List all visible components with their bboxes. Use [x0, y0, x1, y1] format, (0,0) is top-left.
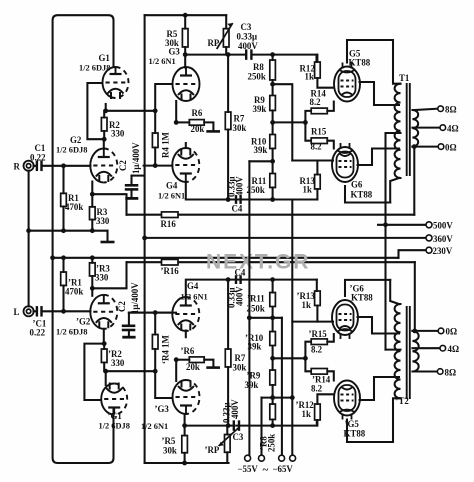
label R4 1M	[161, 131, 171, 158]
watermark NEXT.GR	[206, 251, 310, 274]
wire 8ohm' lead	[415, 370, 438, 372]
label R1	[65, 193, 83, 212]
label R7	[233, 114, 247, 134]
triode G1'	[101, 383, 127, 415]
svg-text:’RP: ’RP	[205, 445, 220, 455]
label R2	[109, 120, 125, 139]
triode G2	[90, 149, 117, 183]
node R9/R10 tap	[270, 120, 275, 125]
resistor R6'	[189, 357, 204, 363]
label R6	[191, 108, 205, 134]
wire R2 leads	[103, 111, 105, 139]
terminal 230V	[426, 247, 432, 253]
wire feedback riser 2	[414, 262, 416, 331]
wire G5 screen UL tap	[360, 82, 400, 105]
svg-text:R15: R15	[311, 127, 327, 137]
svg-text:−55V: −55V	[238, 464, 259, 474]
wire input ground column	[28, 171, 30, 307]
node R8/R9 tap	[270, 82, 275, 87]
svg-text:C2: C2	[117, 301, 127, 312]
node input ground tap	[26, 228, 31, 233]
wire ground bus top	[29, 230, 108, 232]
wire R14' branch	[305, 358, 311, 371]
wire R4' leads	[154, 313, 156, 372]
svg-text:C4: C4	[232, 204, 243, 214]
wire G4' grid line	[129, 312, 172, 314]
label T1	[399, 73, 409, 83]
svg-text:R8: R8	[253, 62, 264, 72]
node G3 cathode	[174, 120, 179, 125]
wire G4 grid line	[144, 165, 173, 167]
wire C3' row	[185, 420, 317, 426]
resistor R7'	[225, 349, 231, 367]
node R9'/R10' tap	[270, 356, 275, 361]
svg-text:4Ω: 4Ω	[448, 344, 460, 354]
svg-text:’G3: ’G3	[155, 404, 170, 414]
label 4ohm'	[448, 344, 460, 354]
wire R1' leads	[62, 258, 64, 312]
wire R10'-R11' lead	[272, 307, 274, 332]
wire T2 center tap	[386, 349, 401, 351]
svg-text:G4: G4	[166, 181, 178, 191]
wire R9' leads	[272, 385, 274, 398]
svg-text:1k: 1k	[302, 300, 311, 310]
svg-text:400V: 400V	[230, 399, 240, 419]
node G3 plate	[183, 52, 188, 57]
resistor R8	[270, 60, 276, 80]
label R11	[247, 176, 267, 195]
svg-text:1k: 1k	[302, 409, 311, 419]
svg-text:L: L	[14, 307, 20, 317]
node R1' bus junction	[61, 255, 66, 260]
svg-text:4Ω: 4Ω	[447, 123, 459, 133]
node bus2 box junction	[50, 255, 55, 260]
label R5'	[162, 436, 177, 456]
svg-text:330: 330	[111, 358, 125, 368]
svg-text:1/2 6N1: 1/2 6N1	[141, 422, 168, 431]
wire 360V rail	[145, 237, 426, 239]
R input jack	[24, 161, 34, 171]
svg-text:250k: 250k	[248, 72, 266, 82]
wire G4' plate line	[186, 280, 317, 298]
svg-text:0.22: 0.22	[30, 152, 46, 162]
ground symbol R6'	[206, 366, 220, 369]
label R11'	[247, 294, 265, 314]
wire feedback riser	[413, 147, 415, 215]
svg-text:’T2: ’T2	[396, 396, 410, 406]
node bias col1 tap	[247, 315, 252, 320]
svg-text:0.33μ: 0.33μ	[237, 32, 258, 42]
wire G6 plate bottom	[345, 186, 390, 203]
svg-text:T1: T1	[399, 73, 409, 83]
wire G5' plate bottom	[347, 398, 401, 442]
svg-text:360V: 360V	[433, 234, 453, 244]
node cathode/R4 junction	[153, 108, 158, 113]
label R12	[300, 64, 316, 82]
wire C1' to G2' grid	[42, 310, 91, 312]
label R2'	[108, 349, 125, 368]
svg-text:39k: 39k	[245, 380, 259, 390]
wire R7 column	[227, 55, 229, 200]
svg-text:330: 330	[96, 216, 110, 226]
wire G4 cathode stem	[185, 143, 187, 148]
label R7'	[233, 353, 247, 373]
label R14'	[311, 375, 331, 394]
node R1 bus junction	[61, 228, 66, 233]
wire G3 grid line	[155, 84, 172, 111]
wire G6' plate top	[345, 280, 390, 296]
wire G3 plate stem	[184, 55, 186, 68]
label R3	[96, 207, 110, 226]
svg-text:C3: C3	[241, 22, 252, 32]
svg-text:8.2: 8.2	[311, 142, 323, 152]
label R3'	[95, 264, 110, 283]
resistor R13'	[315, 291, 321, 306]
wire bias column 4	[291, 200, 293, 456]
wire feedback loop box (left)	[53, 15, 114, 463]
label 4ohm	[447, 123, 459, 133]
resistor R1'	[61, 272, 67, 286]
label R13	[300, 176, 316, 195]
capacitor C4'	[236, 275, 241, 284]
wire R14' to G5' cathode	[327, 371, 334, 380]
capacitor C2	[125, 176, 139, 199]
wire G1' cathode line	[106, 371, 156, 385]
resistor R3	[90, 207, 96, 220]
resistor R15	[311, 138, 327, 144]
node 0ohm feedback	[412, 144, 417, 149]
svg-text:1/2 6DJ8: 1/2 6DJ8	[79, 64, 110, 73]
resistor R12'	[315, 404, 321, 420]
label C4	[227, 176, 245, 214]
node G2 cathode	[90, 192, 95, 197]
wire R15 branch	[305, 122, 311, 140]
label R12'	[296, 400, 315, 419]
resistor R11'	[270, 293, 276, 307]
wire R8' top lead	[272, 398, 274, 404]
svg-text:G6: G6	[351, 180, 363, 190]
wire R9-R10 lead	[272, 111, 274, 135]
wire L jack to C1'	[34, 310, 37, 312]
terminal 8ohm'	[437, 369, 443, 375]
label C3	[237, 22, 259, 51]
wire RP' leads	[226, 426, 228, 463]
resistor R14'	[311, 369, 327, 375]
potentiometer RP'	[219, 428, 239, 452]
wire G6 UL tap	[358, 149, 400, 166]
wire R5' leads	[184, 426, 186, 463]
wire feedback row bottom (R16' row)	[127, 261, 415, 263]
svg-text:8Ω: 8Ω	[445, 367, 457, 377]
node R5 rail junction	[183, 13, 188, 18]
wire G6' UL tap	[358, 317, 400, 334]
label 0ohm'	[446, 327, 458, 337]
triode G3'	[173, 380, 200, 414]
svg-text:1μ/400V: 1μ/400V	[130, 282, 140, 314]
wire G3 cathode stem	[175, 101, 177, 122]
wire R10-R11 lead	[272, 149, 274, 174]
transformer T2 secondary	[412, 331, 418, 372]
terminal 8ohm	[438, 106, 444, 112]
wire R6' leads	[176, 360, 213, 367]
svg-text:1/2 6DJ8: 1/2 6DJ8	[99, 422, 130, 431]
svg-text:1/2 6N1: 1/2 6N1	[181, 293, 208, 302]
potentiometer RP	[217, 23, 233, 49]
wire bias column 1	[248, 161, 250, 455]
wire ground bus bottom	[53, 257, 399, 259]
label R4' 1M	[161, 335, 171, 364]
wire R8 top lead	[272, 55, 274, 60]
wire R jack to C1	[34, 165, 37, 167]
svg-text:1/2 6DJ8: 1/2 6DJ8	[56, 146, 87, 155]
wire R5 leads	[184, 15, 186, 54]
capacitor C1	[37, 161, 42, 172]
transformer T1 core	[407, 83, 410, 176]
terminal 0ohm'	[438, 328, 444, 334]
wire R9'-R10' lead	[272, 346, 274, 371]
wire R6 leads	[176, 122, 213, 129]
wire G1 grid hook	[87, 83, 104, 139]
terminal -55V b	[259, 455, 265, 461]
wire T2 coil top jog	[390, 280, 399, 304]
wire R14 to G5 cathode	[327, 102, 334, 111]
terminal 360V	[426, 235, 432, 241]
label R16'	[161, 266, 180, 276]
svg-text:’C3: ’C3	[230, 432, 244, 442]
wire G4 plate line	[186, 182, 317, 200]
svg-text:330: 330	[95, 273, 109, 283]
wire G2' cathode stem	[91, 288, 93, 296]
node R3' bus junction	[90, 255, 95, 260]
wire G3' grid line	[155, 371, 172, 398]
label -55V ~ -65V	[238, 464, 294, 476]
wire G6' grid line	[292, 321, 333, 323]
svg-text:‘R4 1M: ‘R4 1M	[161, 335, 171, 364]
capacitor C2'	[122, 313, 136, 338]
node G3' cathode	[174, 357, 179, 362]
resistor R10	[270, 135, 276, 149]
wire R3 leads	[91, 194, 93, 231]
beam tetrode G6	[332, 143, 358, 182]
label R8'	[259, 434, 277, 452]
wire R2' leads	[103, 344, 105, 372]
resistor R7	[225, 112, 231, 130]
label G1'	[99, 411, 130, 431]
svg-text:’R5: ’R5	[162, 436, 176, 446]
label R5	[165, 29, 179, 48]
wire R4 leads	[154, 111, 156, 166]
beam tetrode G5'	[334, 381, 360, 420]
svg-text:NEXT.GR: NEXT.GR	[206, 251, 310, 274]
triode G2'	[90, 295, 117, 329]
label R15	[311, 127, 327, 152]
wire 0ohm' lead	[412, 330, 438, 332]
resistor R13	[315, 175, 321, 190]
label G6	[351, 180, 373, 200]
beam tetrode G6'	[332, 300, 358, 339]
svg-text:250k: 250k	[267, 434, 277, 452]
svg-text:KT88: KT88	[351, 190, 373, 200]
ground symbol R6	[206, 130, 220, 133]
wire G5 plate top	[347, 40, 401, 84]
label G6'	[350, 284, 374, 303]
label 230V	[433, 246, 453, 256]
wire R7' column	[227, 280, 229, 426]
svg-text:1k: 1k	[303, 185, 312, 195]
svg-text:’R6: ’R6	[181, 346, 195, 356]
label G1	[79, 53, 110, 73]
node G3' plate	[182, 423, 187, 428]
label R13'	[297, 291, 316, 310]
resistor R5'	[182, 436, 188, 453]
label RP'	[205, 445, 220, 455]
node R8' top	[270, 395, 275, 400]
label 360V	[433, 234, 453, 244]
svg-text:39k: 39k	[253, 104, 267, 114]
svg-text:G1: G1	[99, 53, 110, 63]
node 0ohm' feedback	[412, 329, 417, 334]
wire C2' top tap	[129, 312, 176, 314]
svg-text:R: R	[14, 162, 21, 172]
svg-text:0Ω: 0Ω	[446, 327, 458, 337]
wire C1 to G2 grid	[42, 165, 91, 167]
triode G4'	[172, 297, 199, 331]
wire bias row 397	[262, 397, 293, 399]
node R7' bottom	[226, 423, 231, 428]
svg-text:30k: 30k	[163, 446, 177, 456]
wire R13' leads	[316, 280, 319, 322]
wire R1 leads	[62, 166, 64, 231]
resistor R9	[270, 96, 276, 111]
label C3'	[222, 399, 244, 442]
wire C3 row	[185, 55, 316, 62]
wire feedback row top (R16 row)	[127, 214, 415, 216]
node R14'/R15' tap	[303, 356, 308, 361]
wire 4ohm' lead	[412, 347, 440, 349]
wire driver rail bottom	[145, 462, 229, 464]
svg-text:8.2: 8.2	[311, 384, 323, 394]
label G4	[158, 181, 185, 201]
svg-text:G3: G3	[169, 47, 181, 57]
wire G2 plate to R2	[103, 139, 105, 148]
wire R15 to G6 cathode	[327, 141, 334, 149]
wire R12 leads	[317, 55, 333, 88]
wire 8ohm lead	[415, 109, 438, 110]
terminal -65V b	[290, 455, 296, 461]
triode G1	[103, 67, 129, 99]
svg-text:400V: 400V	[235, 176, 245, 196]
L input jack	[24, 306, 34, 316]
resistor R3'	[90, 263, 96, 276]
terminal -65V a	[279, 455, 285, 461]
svg-text:8.2: 8.2	[311, 345, 323, 355]
wire G3' plate stem	[184, 415, 186, 426]
svg-text:R7: R7	[234, 114, 245, 124]
resistor R10'	[270, 332, 276, 346]
label R15'	[309, 329, 328, 355]
wire cathode to C2 hook	[92, 194, 126, 215]
node R8 top	[270, 52, 275, 57]
wire G1 cathode line	[106, 104, 156, 111]
node 360V rail start	[142, 236, 147, 241]
wire G1' grid hook	[84, 344, 104, 400]
label 0ohm	[445, 142, 457, 152]
svg-text:~: ~	[263, 464, 269, 476]
wire bias tap row1	[249, 160, 272, 162]
wire R15' to G6' cathode	[327, 334, 334, 342]
node C1/R1 junction	[61, 163, 66, 168]
wire cathode' to R16' hook	[92, 262, 126, 288]
label R14	[310, 89, 327, 108]
svg-text:470k: 470k	[65, 287, 83, 297]
wire bias tap row2	[248, 318, 282, 456]
label C2'	[117, 282, 140, 314]
node G4 grid / R4	[153, 163, 158, 168]
svg-text:500V: 500V	[433, 221, 453, 231]
resistor R12	[315, 62, 321, 78]
label C1	[30, 143, 46, 162]
wire G5' screen UL tap	[360, 377, 400, 400]
svg-text:C2: C2	[118, 160, 128, 171]
wire R3' leads	[91, 258, 93, 289]
capacitor C4	[236, 195, 241, 204]
wire T1 B+ column	[384, 133, 386, 350]
wire G2 cathode stem	[91, 182, 93, 195]
wire R15' branch	[305, 342, 311, 359]
svg-text:470k: 470k	[65, 202, 83, 212]
resistor R2	[101, 118, 107, 132]
triode G3	[173, 67, 200, 101]
svg-text:8Ω: 8Ω	[445, 105, 457, 115]
wire bias column 2	[260, 398, 262, 456]
label G3'	[141, 404, 169, 431]
label G5	[349, 49, 371, 68]
svg-text:R7: R7	[235, 353, 246, 363]
label L input	[14, 307, 20, 317]
svg-text:’R15: ’R15	[309, 329, 328, 339]
wire 4ohm lead	[412, 127, 440, 129]
svg-text:20k: 20k	[186, 362, 200, 372]
capacitor C3	[246, 49, 251, 60]
wire grid feed G6-upper	[273, 84, 293, 160]
node R8' bottom	[270, 423, 275, 428]
ground symbol top	[101, 231, 115, 242]
wire 0ohm lead	[412, 146, 438, 148]
wire R8' bottom lead	[272, 420, 274, 426]
label G4'	[181, 281, 208, 302]
svg-text:R16: R16	[161, 219, 177, 229]
label G5'	[344, 419, 366, 439]
wire G3' cathode stem	[175, 360, 177, 381]
svg-text:30k: 30k	[233, 363, 247, 373]
label C2	[118, 142, 141, 174]
node cathode/R4' junction	[153, 369, 158, 374]
node R10/R11 tap	[270, 159, 275, 164]
svg-text:G2: G2	[70, 135, 82, 145]
node R7' top	[226, 277, 231, 282]
wire T1 center tap	[386, 132, 401, 134]
label C4'	[227, 268, 246, 309]
label 500V	[433, 221, 453, 231]
wire driver B+ top rail	[145, 14, 227, 16]
svg-text:0Ω: 0Ω	[445, 142, 457, 152]
terminal -55V a	[245, 455, 251, 461]
wire G6 grid line	[292, 159, 333, 161]
node R7 bottom	[226, 197, 231, 202]
wire 230V step	[399, 250, 427, 258]
wire R13 leads	[316, 161, 318, 200]
svg-text:230V: 230V	[433, 246, 453, 256]
